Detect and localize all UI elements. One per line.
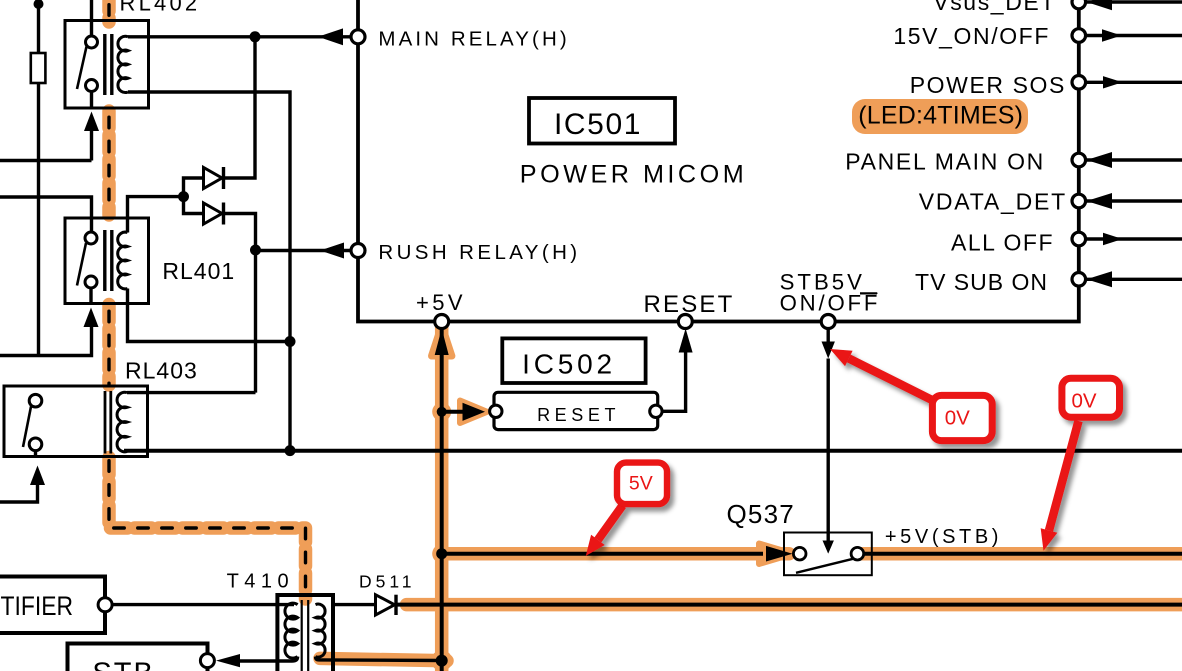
node: diode anodes <box>178 191 189 202</box>
orange halo of IC502 reset arrowhead <box>460 401 487 424</box>
wire: D511 cathode rail <box>396 603 1182 607</box>
pin RUSH RELAY(H) <box>351 244 365 258</box>
wire: STB5V_ON/OFF net <box>827 329 830 542</box>
pin Vsus_DET <box>1072 0 1086 9</box>
highlighted dashed wire seg3 (RL401 to RL403) <box>102 305 116 386</box>
highlighted +5V(STB) rail from D511 <box>407 598 1182 612</box>
STB pin <box>200 654 214 668</box>
node: +5V / 5V rail <box>436 548 447 559</box>
IC502 RESET left pin <box>490 405 502 417</box>
relay RL401 <box>65 218 149 304</box>
IC501 label box <box>529 98 675 144</box>
node: +5V / IC502 arrow <box>437 407 447 417</box>
wire: horizontal to RL401 lower arrow <box>0 327 92 356</box>
wire: top diode cathode to MAIN node <box>224 37 255 178</box>
orange halo of Q537 feed arrowhead <box>759 544 794 565</box>
svg-text:TV SUB ON: TV SUB ON <box>915 269 1048 295</box>
arrowhead into RL401 bottom <box>84 308 99 328</box>
wire: RL402 switch bottom stub <box>90 92 93 109</box>
wire: +5V(STB) rail from Q537 <box>863 552 1182 556</box>
pin +5V <box>435 315 449 329</box>
svg-text:D511: D511 <box>359 572 416 592</box>
arrowhead 15V_ON/OFF (right) <box>1102 29 1122 41</box>
wire: horizontal to RL401 switch top <box>0 197 92 233</box>
IC501 outline <box>358 0 1079 322</box>
dashed wire seg2 <box>107 114 110 212</box>
IC502 label box <box>502 338 645 383</box>
orange highlight of LED:4TIMES note <box>852 99 1028 134</box>
STB block <box>68 644 208 671</box>
wire: T410 primary bottom to STB <box>240 657 298 661</box>
orange halo of junction dot C <box>431 650 452 671</box>
svg-text:5V: 5V <box>629 473 653 495</box>
pin TV SUB ON <box>1072 273 1086 287</box>
wire: long rail from RL403 coil bottom <box>124 449 1182 453</box>
highlighted dashed wire seg1 (above RL402) <box>102 0 116 22</box>
highlighted dashed wire seg2 (RL402 to RL401) <box>102 111 116 215</box>
transformer T410 <box>277 595 333 671</box>
BLACK DASHES of highlighted dashed wire <box>109 0 306 593</box>
orange halo of junction dot A <box>432 402 451 421</box>
callout 0V (STB5V arrow) <box>830 349 992 441</box>
dashed wire seg1 <box>107 0 110 16</box>
pin ALL OFF <box>1072 232 1086 246</box>
arrowhead below STB5V pin <box>822 342 835 359</box>
arrowhead on MAIN RELAY wire <box>318 28 343 45</box>
arrowhead ALL OFF (right) <box>1103 233 1123 245</box>
arrowhead into IC502 RESET pin <box>463 403 486 421</box>
wire: +5V highlighted net core <box>440 328 444 671</box>
wire: rectifier to T410 primary <box>112 603 294 606</box>
wire: RL402 coil bottom to x290 riser <box>128 92 290 451</box>
arrowhead up to RESET pin <box>679 329 693 353</box>
node: RL401 coil bottom / riser <box>285 336 296 347</box>
arrowhead Vsus_DET (left) <box>1087 0 1113 10</box>
node: +5V / secondary return <box>436 655 448 667</box>
highlighted +5V net vertical <box>435 325 449 671</box>
arrowhead POWER SOS (right) <box>1103 76 1123 88</box>
right pin stub wires <box>1086 2 1182 279</box>
wire: RL402 switch top feed <box>90 0 93 36</box>
resistor <box>31 53 46 83</box>
arrowhead PANEL MAIN ON (left) <box>1087 152 1113 168</box>
wire: bottom diode cathode down to RL403 coil <box>224 214 256 393</box>
wire VDATA_DET stub <box>1086 199 1182 202</box>
wire: horizontal into RL402 lower arrow <box>0 159 92 162</box>
arrowhead into Q537 control <box>823 541 834 554</box>
wire: RL401 coil top riser <box>128 197 184 233</box>
pin MAIN RELAY(H) <box>351 30 365 44</box>
wire Vsus_DET stub <box>1086 0 1182 3</box>
wire: IC502 reset arrow shaft <box>442 410 464 414</box>
wire: RL402 lower arrow tail <box>90 130 93 161</box>
rectifier output pin <box>98 598 112 612</box>
pin 15V_ON/OFF <box>1072 29 1086 43</box>
arrowhead into RL403 bottom <box>30 466 45 486</box>
orange halo of +5V up arrowhead <box>432 325 452 356</box>
wire TV SUB ON stub <box>1086 278 1182 281</box>
pin PANEL MAIN ON <box>1072 153 1086 167</box>
wire: T410 secondary bottom return <box>316 657 442 661</box>
svg-text:MAIN RELAY(H): MAIN RELAY(H) <box>378 27 569 50</box>
arrowhead VDATA_DET (left) <box>1087 193 1113 209</box>
wire 15V_ON/OFF stub <box>1086 34 1182 37</box>
wire: 5V rail to Q537 <box>442 552 763 556</box>
wire: left resistor branch vertical <box>37 0 40 357</box>
wire: RL401 coil bottom to x290 riser <box>128 289 291 342</box>
svg-text:STB: STB <box>92 658 154 671</box>
dashed wire seg3 <box>107 308 110 385</box>
overline on F <box>860 292 877 294</box>
svg-text:VDATA_DET: VDATA_DET <box>919 189 1067 215</box>
diode D-bottom <box>204 203 224 225</box>
svg-text:RESET: RESET <box>537 405 620 425</box>
callout 5V <box>586 463 667 556</box>
node: MAIN RELAY / coil top <box>250 31 261 42</box>
svg-text:(LED:4TIMES): (LED:4TIMES) <box>858 102 1023 130</box>
arrowhead into RL402 bottom <box>84 112 99 132</box>
wire: RL401 switch bottom stub <box>89 288 92 304</box>
orange halo of junction dot B <box>432 544 451 563</box>
svg-text:ALL OFF: ALL OFF <box>951 230 1054 256</box>
PIN CIRCLES on IC501 <box>351 0 1086 328</box>
wire: horizontal to RL403 lower arrow <box>0 484 38 502</box>
svg-text:RL403: RL403 <box>125 358 198 384</box>
node: top of resistor branch <box>34 0 44 9</box>
pin STB5V_ON/OFF <box>821 315 835 329</box>
svg-text:+5V(STB): +5V(STB) <box>885 526 1002 548</box>
rectifier block <box>0 577 105 634</box>
wire: RL403 switch bottom stub <box>34 451 37 457</box>
arrowhead on RUSH RELAY wire <box>320 243 344 259</box>
svg-text:RL401: RL401 <box>162 258 235 284</box>
svg-text:POWER SOS: POWER SOS <box>910 72 1066 98</box>
wire: RL403 coil top to riser <box>127 391 256 394</box>
wire POWER SOS stub <box>1086 81 1182 84</box>
callout 0V (+5V STB rail) <box>1041 378 1120 551</box>
arrowhead into Q537 control (redrawn above box fill) <box>823 541 834 554</box>
svg-text:0V: 0V <box>945 406 970 429</box>
highlighted dashed wire seg4 (RL403 to T410) <box>109 458 306 600</box>
arrowhead into Q537 left pin <box>766 546 793 562</box>
dashed wire seg4 <box>109 455 306 593</box>
svg-text:PANEL MAIN ON: PANEL MAIN ON <box>845 149 1045 175</box>
svg-text:IC502: IC502 <box>522 349 616 380</box>
diode D511 <box>376 595 397 615</box>
highlighted 5V rail left of Q537 <box>442 547 789 561</box>
wire: RL402 coil top to MAIN RELAY pin <box>128 35 352 38</box>
svg-text:T410: T410 <box>227 571 295 593</box>
svg-text:RUSH RELAY(H): RUSH RELAY(H) <box>378 241 580 264</box>
wire: T410 secondary to D511 <box>333 603 376 606</box>
pin RESET <box>678 315 692 329</box>
wire: RUSH RELAY pin to diode node <box>256 249 352 252</box>
relay RL403 <box>4 386 148 457</box>
highlighted secondary return wire <box>320 658 447 660</box>
switch Q537 <box>784 533 872 576</box>
svg-text:RESET: RESET <box>643 291 734 318</box>
svg-text:RL402: RL402 <box>120 0 201 15</box>
relay RL402 <box>65 21 149 109</box>
arrowhead of +5V up arrow <box>435 329 449 356</box>
node: riser / long rail <box>285 445 296 456</box>
svg-text:+5V: +5V <box>416 290 466 315</box>
arrowhead TV SUB ON (left) <box>1087 271 1113 287</box>
svg-text:0V: 0V <box>1071 390 1096 413</box>
pin VDATA_DET <box>1072 194 1086 208</box>
svg-text:IC501: IC501 <box>554 108 642 141</box>
node: RUSH RELAY wire <box>250 245 261 256</box>
pin POWER SOS <box>1072 76 1086 90</box>
arrowhead into STB block <box>216 654 240 667</box>
svg-text:Q537: Q537 <box>727 499 795 529</box>
IC502 RESET block <box>494 392 658 429</box>
svg-text:POWER MICOM: POWER MICOM <box>520 161 747 189</box>
svg-text:Vsus_DET: Vsus_DET <box>933 0 1056 15</box>
diode D-top <box>204 167 224 189</box>
IC502 RESET right pin <box>650 405 662 417</box>
wire ALL OFF stub <box>1086 237 1182 240</box>
wire PANEL MAIN ON stub <box>1086 158 1182 161</box>
svg-text:TIFIER: TIFIER <box>1 591 74 621</box>
svg-text:15V_ON/OFF: 15V_ON/OFF <box>893 23 1050 49</box>
highlighted 5V rail right of Q537 <box>861 547 1182 561</box>
wire: RESET feedback net <box>662 352 686 411</box>
wire: diode node branches <box>184 178 203 214</box>
